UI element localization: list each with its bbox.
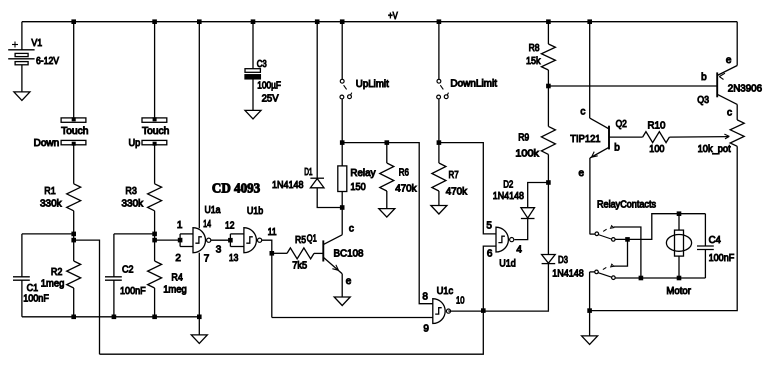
svg-text:TIP121: TIP121 bbox=[570, 134, 601, 145]
junction on +V rail at Q2 branch bbox=[587, 19, 592, 24]
svg-text:4: 4 bbox=[516, 244, 522, 255]
svg-text:2N3906: 2N3906 bbox=[728, 84, 763, 95]
svg-text:c: c bbox=[349, 224, 354, 235]
resistor R3 bbox=[148, 184, 162, 211]
svg-text:b: b bbox=[614, 143, 620, 154]
ground for C3 bbox=[245, 110, 261, 119]
svg-text:CD 4093: CD 4093 bbox=[212, 182, 260, 197]
transistor Q1 BC108 bbox=[323, 235, 342, 274]
wire from +V rail to Touch Down pad bbox=[73, 22, 75, 118]
svg-text:470k: 470k bbox=[395, 184, 417, 195]
junction at R5 tee bbox=[270, 251, 275, 256]
svg-text:U1b: U1b bbox=[247, 206, 264, 217]
wire R2 to ground bus bbox=[73, 288, 75, 317]
svg-text:e: e bbox=[726, 55, 732, 66]
ground for U1a pin 7 bbox=[191, 335, 207, 344]
svg-text:C2: C2 bbox=[122, 265, 134, 276]
potentiometer 10k_pot bbox=[730, 120, 744, 146]
svg-text:Touch: Touch bbox=[61, 126, 88, 137]
resistor R7 bbox=[432, 163, 446, 191]
wire U1b output pin 11 down to pin 9 feed bbox=[262, 240, 272, 317]
svg-text:1N4148: 1N4148 bbox=[272, 180, 304, 191]
svg-text:c: c bbox=[580, 107, 585, 118]
svg-text:V1: V1 bbox=[31, 38, 42, 49]
svg-text:1N4148: 1N4148 bbox=[493, 191, 525, 202]
svg-text:Q3: Q3 bbox=[697, 95, 709, 106]
wire U1a pin 7 to ground bbox=[198, 253, 200, 335]
ground for R6 bbox=[379, 209, 395, 218]
junction on +V rail at DownLimit branch bbox=[437, 19, 442, 24]
capacitor C1 bbox=[13, 234, 30, 317]
diode D3 1N4148 bbox=[542, 183, 556, 311]
wire relay coil to Q1 collector node bbox=[341, 192, 343, 208]
wire K1a NO to motor bottom wire bbox=[614, 227, 641, 278]
transistor Q2 TIP121 bbox=[590, 118, 609, 158]
op-amp U1b NAND gate bbox=[230, 228, 261, 253]
svg-text:12: 12 bbox=[225, 220, 235, 231]
wire +V to C3 bbox=[252, 22, 254, 69]
junction on +V rail at pin 14 branch bbox=[197, 19, 202, 24]
junction dots on motor bottom wire bbox=[639, 276, 644, 281]
junction at R6 top bbox=[385, 140, 390, 145]
svg-text:470k: 470k bbox=[446, 186, 468, 197]
svg-text:C1: C1 bbox=[27, 283, 39, 294]
relay contact K1a common bbox=[590, 232, 599, 236]
relay contact K1b throw NO bbox=[611, 264, 614, 267]
wire +V to R8 bbox=[547, 22, 549, 44]
svg-text:e: e bbox=[346, 276, 352, 287]
relay contact K1b arm bbox=[598, 267, 612, 277]
wire Q2 emitter to relay contact 1 common bbox=[589, 158, 591, 234]
junctions on ground bus bbox=[71, 315, 76, 320]
svg-text:e: e bbox=[579, 168, 585, 179]
resistor R8 bbox=[541, 44, 555, 70]
wire U1b output to U1c pin 9 bbox=[272, 317, 433, 319]
wire R4 to ground bus bbox=[154, 288, 156, 317]
svg-text:U1d: U1d bbox=[499, 259, 516, 270]
wire Q3 emitter to +V bbox=[736, 22, 738, 66]
wire Q2 base to R10 bbox=[609, 136, 643, 138]
svg-text:100nF: 100nF bbox=[709, 253, 735, 264]
svg-text:1N4148: 1N4148 bbox=[552, 269, 584, 280]
junction on +V rail at C3 branch bbox=[251, 19, 256, 24]
svg-text:R5: R5 bbox=[295, 235, 306, 246]
wire D1 to relay node bbox=[317, 188, 342, 208]
wire node A to C1 bbox=[22, 233, 74, 235]
svg-text:6: 6 bbox=[487, 249, 493, 260]
junction at ground node bbox=[587, 308, 592, 313]
svg-text:Down: Down bbox=[34, 138, 60, 149]
svg-text:330k: 330k bbox=[122, 199, 145, 210]
svg-text:Q2: Q2 bbox=[616, 119, 628, 130]
svg-text:7k5: 7k5 bbox=[292, 261, 307, 272]
wire U1d pin 6 from U1c output / feedback rail bbox=[100, 246, 497, 354]
svg-text:D2: D2 bbox=[503, 180, 513, 191]
wire +V to U1a pin 14 bbox=[198, 22, 200, 229]
resistor R1 bbox=[67, 184, 81, 211]
junction on +V rail at D1 branch bbox=[315, 19, 320, 24]
transistor Q3 2N3906 bbox=[717, 66, 737, 105]
wire K1b NC to motor bottom bbox=[615, 277, 705, 279]
op-amp U1d NAND gate bbox=[496, 227, 508, 252]
wire +V to DownLimit switch bbox=[438, 22, 440, 80]
touch plate SW2 upper (Touch Up) bbox=[142, 118, 167, 122]
svg-text:UpLimit: UpLimit bbox=[356, 79, 389, 90]
svg-text:15k: 15k bbox=[526, 56, 541, 67]
capacitor C3 electrolytic bbox=[245, 69, 260, 111]
touch plate SW1 upper (Touch Down) bbox=[61, 118, 86, 122]
svg-text:+V: +V bbox=[388, 11, 398, 22]
svg-text:330k: 330k bbox=[40, 199, 63, 210]
relay contact K1a throw NO bbox=[611, 226, 614, 229]
wire Q1 emitter to ground bbox=[341, 274, 343, 297]
wire +V to Q2 collector bbox=[589, 22, 591, 118]
svg-text:Up: Up bbox=[129, 138, 141, 149]
svg-text:100: 100 bbox=[649, 144, 665, 155]
resistor R2 bbox=[67, 261, 81, 288]
svg-text:Touch: Touch bbox=[142, 126, 169, 137]
switch UpLimit bbox=[340, 79, 344, 83]
svg-text:c: c bbox=[727, 107, 732, 118]
op-amp U1c NAND gate bbox=[433, 299, 445, 324]
op-amp U1a NAND gate bbox=[180, 228, 211, 253]
wire R8 to base node bbox=[547, 70, 549, 86]
svg-text:Q1: Q1 bbox=[307, 233, 317, 244]
svg-text:6-12V: 6-12V bbox=[36, 56, 59, 67]
wire K1a NC to motor top bbox=[615, 214, 705, 240]
relay contact K1a arm bbox=[598, 229, 611, 239]
svg-text:b: b bbox=[701, 72, 707, 83]
wire node B to C2 bbox=[114, 233, 155, 235]
svg-text:9: 9 bbox=[423, 324, 429, 335]
relay contact K1a throw NC bbox=[612, 238, 616, 242]
resistor R10 bbox=[643, 132, 670, 143]
ground bus wire for touch RC networks bbox=[22, 316, 199, 318]
wire U1c output pin 10 to D3 bbox=[449, 310, 549, 313]
junction at U1a input tie bbox=[178, 238, 183, 243]
svg-text:R4: R4 bbox=[171, 273, 183, 284]
wire relay top node to R6 and U1c pin 8 bbox=[342, 143, 433, 304]
svg-text:R9: R9 bbox=[518, 133, 529, 144]
svg-text:11: 11 bbox=[268, 227, 277, 238]
relay coil Relay 150 bbox=[338, 166, 347, 192]
svg-text:C3: C3 bbox=[257, 59, 267, 70]
svg-text:10k_pot: 10k_pot bbox=[698, 144, 731, 155]
wire DownLimit node to U1d pin 5 bbox=[439, 143, 496, 234]
diode D2 1N4148 bbox=[521, 208, 535, 218]
wire K1a node down to K1b NO bbox=[614, 239, 628, 266]
wire ground node down bbox=[589, 311, 591, 336]
wire node A to feedback line bbox=[74, 240, 100, 354]
ground for relay/motor circuit bbox=[582, 336, 598, 345]
wire U1a output pin 3 to U1b input bbox=[211, 239, 231, 241]
junction on +V rail at Touch Up branch bbox=[152, 19, 157, 24]
wire Touch Up pad to R3 bbox=[154, 145, 156, 184]
junction on +V rail at relay branch bbox=[340, 19, 345, 24]
touch plate SW1 lower (Touch Down) bbox=[61, 140, 86, 144]
wire R3 to node B bbox=[154, 211, 156, 261]
svg-text:150: 150 bbox=[350, 182, 366, 193]
svg-text:7: 7 bbox=[204, 254, 210, 265]
svg-text:Motor: Motor bbox=[666, 286, 691, 297]
wire +V to UpLimit switch bbox=[341, 22, 343, 80]
wire UpLimit to relay coil node bbox=[341, 99, 343, 166]
svg-text:R3: R3 bbox=[125, 186, 137, 197]
wire R7 to ground bbox=[438, 191, 440, 206]
wire Q3 collector to pot bbox=[736, 104, 738, 120]
junction at K1a NC node bbox=[625, 237, 630, 242]
relay contact K1b throw NC bbox=[612, 276, 616, 280]
resistor R6 bbox=[380, 143, 394, 209]
svg-text:R8: R8 bbox=[529, 43, 540, 54]
capacitor C4 bbox=[697, 214, 714, 278]
junction at feedback/U1c output bbox=[481, 308, 486, 313]
wire Touch Down pad to R1 bbox=[73, 145, 75, 184]
svg-text:100µF: 100µF bbox=[257, 81, 281, 92]
svg-text:100nF: 100nF bbox=[23, 294, 49, 305]
svg-text:D3: D3 bbox=[558, 255, 568, 266]
svg-text:3: 3 bbox=[216, 245, 222, 256]
switch DownLimit bbox=[437, 79, 441, 83]
wire R5 to Q1 base bbox=[314, 252, 323, 254]
svg-text:U1c: U1c bbox=[437, 286, 454, 297]
wire +V top power rail bbox=[22, 21, 737, 23]
svg-text:1meg: 1meg bbox=[41, 279, 65, 290]
resistor R4 bbox=[148, 261, 162, 288]
junction at D2/D3 node bbox=[546, 180, 551, 185]
diode D1 1N4148 bbox=[310, 178, 324, 188]
wire D2 node to D2 top bbox=[528, 183, 549, 208]
resistor R9 bbox=[541, 86, 555, 183]
wire from +V rail to Touch Up pad bbox=[154, 22, 156, 118]
junction on +V rail at Touch Down branch bbox=[71, 19, 76, 24]
junction at relay coil top node bbox=[340, 140, 345, 145]
svg-text:DownLimit: DownLimit bbox=[450, 79, 497, 90]
junction on +V rail at R8 branch bbox=[546, 19, 551, 24]
svg-text:1meg: 1meg bbox=[163, 285, 187, 296]
wire +V to D1 bbox=[316, 22, 318, 179]
svg-text:RelayContacts: RelayContacts bbox=[597, 200, 656, 211]
svg-text:1: 1 bbox=[177, 220, 183, 231]
svg-text:100nF: 100nF bbox=[120, 286, 146, 297]
junction at relay bottom node bbox=[340, 205, 345, 210]
junction at motor top bbox=[677, 211, 682, 216]
svg-text:25V: 25V bbox=[262, 94, 279, 105]
ground for Q1 emitter bbox=[334, 297, 350, 306]
svg-text:5: 5 bbox=[486, 221, 492, 232]
wire D2 to U1d output pin 4 bbox=[515, 219, 528, 240]
svg-text:100k: 100k bbox=[515, 149, 540, 160]
wire node B to U1a inputs bbox=[155, 239, 181, 241]
wire R1 to node A bbox=[73, 211, 75, 261]
svg-text:R6: R6 bbox=[399, 168, 410, 179]
resistor R5 bbox=[287, 248, 314, 259]
ground for R7 bbox=[431, 206, 447, 215]
wire DownLimit to R7 node bbox=[438, 99, 440, 163]
svg-text:R7: R7 bbox=[449, 170, 460, 181]
wire R10 to pot wiper arrow bbox=[669, 134, 729, 139]
motor Motor bbox=[666, 214, 691, 278]
battery V1 bbox=[8, 22, 34, 92]
wire R8/R9 node to Q3 base bbox=[548, 85, 717, 87]
svg-text:C4: C4 bbox=[709, 235, 722, 246]
svg-text:R2: R2 bbox=[51, 267, 63, 278]
junction at R8/R9 node bbox=[546, 84, 551, 89]
wire junction to R5 bbox=[272, 252, 287, 254]
svg-text:10: 10 bbox=[456, 295, 465, 306]
svg-text:14: 14 bbox=[203, 219, 211, 230]
svg-text:2: 2 bbox=[175, 253, 181, 264]
svg-text:R10: R10 bbox=[648, 120, 666, 131]
svg-text:13: 13 bbox=[229, 253, 239, 264]
relay contact K1b common bbox=[590, 270, 599, 311]
junction at U1b input tie bbox=[228, 238, 233, 243]
touch plate SW2 lower (Touch Up) bbox=[142, 140, 167, 144]
svg-text:R1: R1 bbox=[44, 186, 56, 197]
node A junction dots (R1/C1/R2/feedback) bbox=[71, 232, 76, 237]
ground for V1 bbox=[14, 92, 30, 101]
capacitor C2 bbox=[105, 234, 122, 317]
svg-text:U1a: U1a bbox=[205, 205, 221, 216]
svg-text:8: 8 bbox=[422, 291, 428, 302]
node B junction dots (R3/C2/R4/U1a input) bbox=[152, 232, 157, 237]
junction at R7 top bbox=[437, 140, 442, 145]
wire pot bottom to motor return rail bbox=[590, 146, 738, 310]
svg-text:Relay: Relay bbox=[350, 168, 375, 179]
svg-text:D1: D1 bbox=[304, 167, 313, 178]
wire Q1 collector to relay node bbox=[341, 208, 343, 235]
svg-text:BC108: BC108 bbox=[334, 248, 364, 259]
